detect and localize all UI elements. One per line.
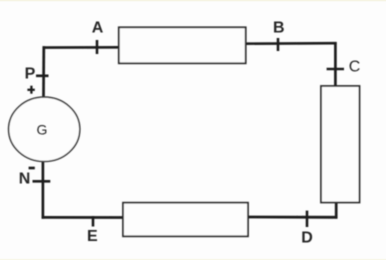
svg-text:C: C — [349, 59, 361, 76]
label E — [87, 228, 98, 245]
svg-text:E: E — [87, 228, 98, 245]
resistor R2 (right vertical) — [321, 86, 360, 203]
top scan edge line — [0, 0, 386, 1]
node B tick — [277, 38, 280, 51]
node E tick — [92, 216, 95, 227]
wire: top-right horizontal (R1 to corner B-C) — [245, 42, 337, 45]
svg-text:A: A — [92, 20, 104, 37]
label G (generator) — [37, 122, 48, 138]
label D — [301, 229, 313, 246]
node C tick — [327, 68, 344, 71]
node N tick — [33, 180, 51, 183]
minus sign — [29, 167, 35, 170]
generator G circle — [9, 97, 80, 161]
node A tick — [96, 40, 99, 54]
wire: left vertical N segment — [42, 161, 45, 219]
svg-text:P: P — [25, 65, 36, 82]
wire: right vertical lower (R2 bottom to corner D) — [335, 202, 338, 219]
node D tick — [306, 211, 309, 227]
wire: left vertical P segment — [42, 46, 45, 97]
resistor R3 (bottom) — [123, 203, 248, 237]
bottom scan edge line — [0, 259, 386, 260]
resistor R1 (top) — [119, 27, 246, 63]
node P tick — [36, 75, 49, 78]
svg-text:D: D — [301, 229, 313, 246]
label N — [19, 171, 31, 188]
wire: bottom-right horizontal (corner to R3) — [248, 216, 338, 219]
label C — [349, 59, 361, 76]
wire: right vertical upper (corner to R2 top) — [334, 42, 337, 87]
wire: bottom-left horizontal (R3 to corner) — [42, 216, 124, 219]
label P — [25, 65, 36, 82]
plus sign — [27, 86, 34, 94]
svg-text:B: B — [273, 19, 285, 36]
wire: top-left horizontal (corner to R1) — [43, 46, 120, 49]
label A — [92, 20, 104, 37]
label B — [273, 19, 285, 36]
svg-text:G: G — [37, 122, 48, 138]
svg-text:N: N — [19, 171, 31, 188]
